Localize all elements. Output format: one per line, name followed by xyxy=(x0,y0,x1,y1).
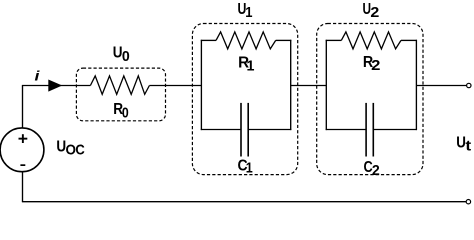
wire: U2 top left stub xyxy=(326,39,342,41)
wire: U2 top right stub xyxy=(401,39,417,41)
wire: top rail left segment xyxy=(22,85,91,87)
wire: U2 bottom left stub xyxy=(326,129,366,131)
wire: left vertical, top rail to source xyxy=(22,86,24,129)
current arrow i xyxy=(48,80,62,92)
svg-text:1: 1 xyxy=(247,58,255,74)
dashed box U_2 xyxy=(317,24,423,175)
svg-text:1: 1 xyxy=(246,158,253,175)
wire: U2 bottom right stub xyxy=(374,129,417,131)
svg-text:2: 2 xyxy=(372,163,380,180)
svg-text:t: t xyxy=(465,138,471,155)
resistor R0 xyxy=(90,76,149,94)
wire: U2 to output terminal xyxy=(416,85,466,87)
wire: U1 top left stub xyxy=(201,39,216,41)
dashed box U_1 xyxy=(192,24,297,175)
resistor R2 xyxy=(341,32,401,49)
node: U2 left vertical xyxy=(325,40,327,130)
wire: U1 bottom right stub xyxy=(249,129,291,131)
node: U1 left vertical xyxy=(200,40,202,130)
resistor R1 xyxy=(216,32,276,49)
node: U2 right vertical xyxy=(415,40,417,130)
svg-text:O: O xyxy=(65,142,75,159)
capacitor C2 xyxy=(366,103,373,157)
wire: R0 to U1 network xyxy=(149,85,201,87)
svg-text:0: 0 xyxy=(122,48,130,65)
node: output terminal bottom xyxy=(466,200,470,204)
wire: U1 bottom left stub xyxy=(201,129,241,131)
svg-text:i: i xyxy=(35,69,41,84)
wire: U1 top right stub xyxy=(276,39,292,41)
wire: U1 to U2 xyxy=(291,85,327,87)
node: output terminal top xyxy=(467,83,471,87)
svg-text:2: 2 xyxy=(371,58,380,74)
wire: bottom rail xyxy=(22,201,467,203)
wire: source bottom to bottom rail xyxy=(22,172,24,202)
voltage source U_OC xyxy=(0,128,44,172)
svg-text:1: 1 xyxy=(245,3,252,20)
dashed box U_0 xyxy=(76,68,165,121)
capacitor C1 xyxy=(241,103,248,157)
svg-text:0: 0 xyxy=(122,103,129,121)
svg-text:C: C xyxy=(75,141,84,158)
svg-text:2: 2 xyxy=(370,4,379,21)
node: U1 right vertical xyxy=(290,40,292,130)
